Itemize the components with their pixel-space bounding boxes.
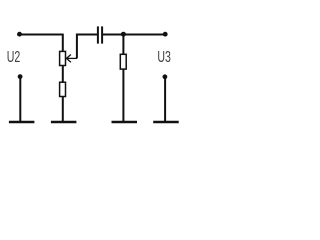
junction node [121,32,126,37]
resistor right [120,54,126,69]
wire corner down to potentiometer top [62,34,64,52]
resistor lower-left [60,82,66,96]
wire wiper up and right to capacitor [77,35,97,59]
terminal U2 pin 1 [17,32,22,37]
capacitor [98,26,102,43]
ground under resistor chain [51,121,77,123]
wire junction down to resistor right [122,35,124,54]
wire U3 pin 2 to ground [164,77,166,122]
wire U2 pin1 to corner [22,34,64,36]
ground under U2 pin 2 [9,121,35,123]
ground under resistor right [112,121,138,123]
potentiometer body [60,51,66,65]
wire resistor right to ground [122,69,124,122]
wire capacitor to junction [103,34,123,36]
terminal U3 pin 2 [163,74,168,79]
wire resistor to ground [62,97,64,122]
wire junction to U3 pin 1 [126,34,164,36]
potentiometer wiper arrow [66,55,77,63]
wire potentiometer bottom to resistor [62,66,64,83]
svg-text:U2: U2 [7,49,21,66]
ground under U3 pin 2 [153,121,179,123]
terminal U3 pin 1 [163,32,168,37]
terminal U2 pin 2 [18,74,23,79]
wire U2 pin 2 to ground [19,77,21,122]
svg-text:U3: U3 [157,49,171,66]
